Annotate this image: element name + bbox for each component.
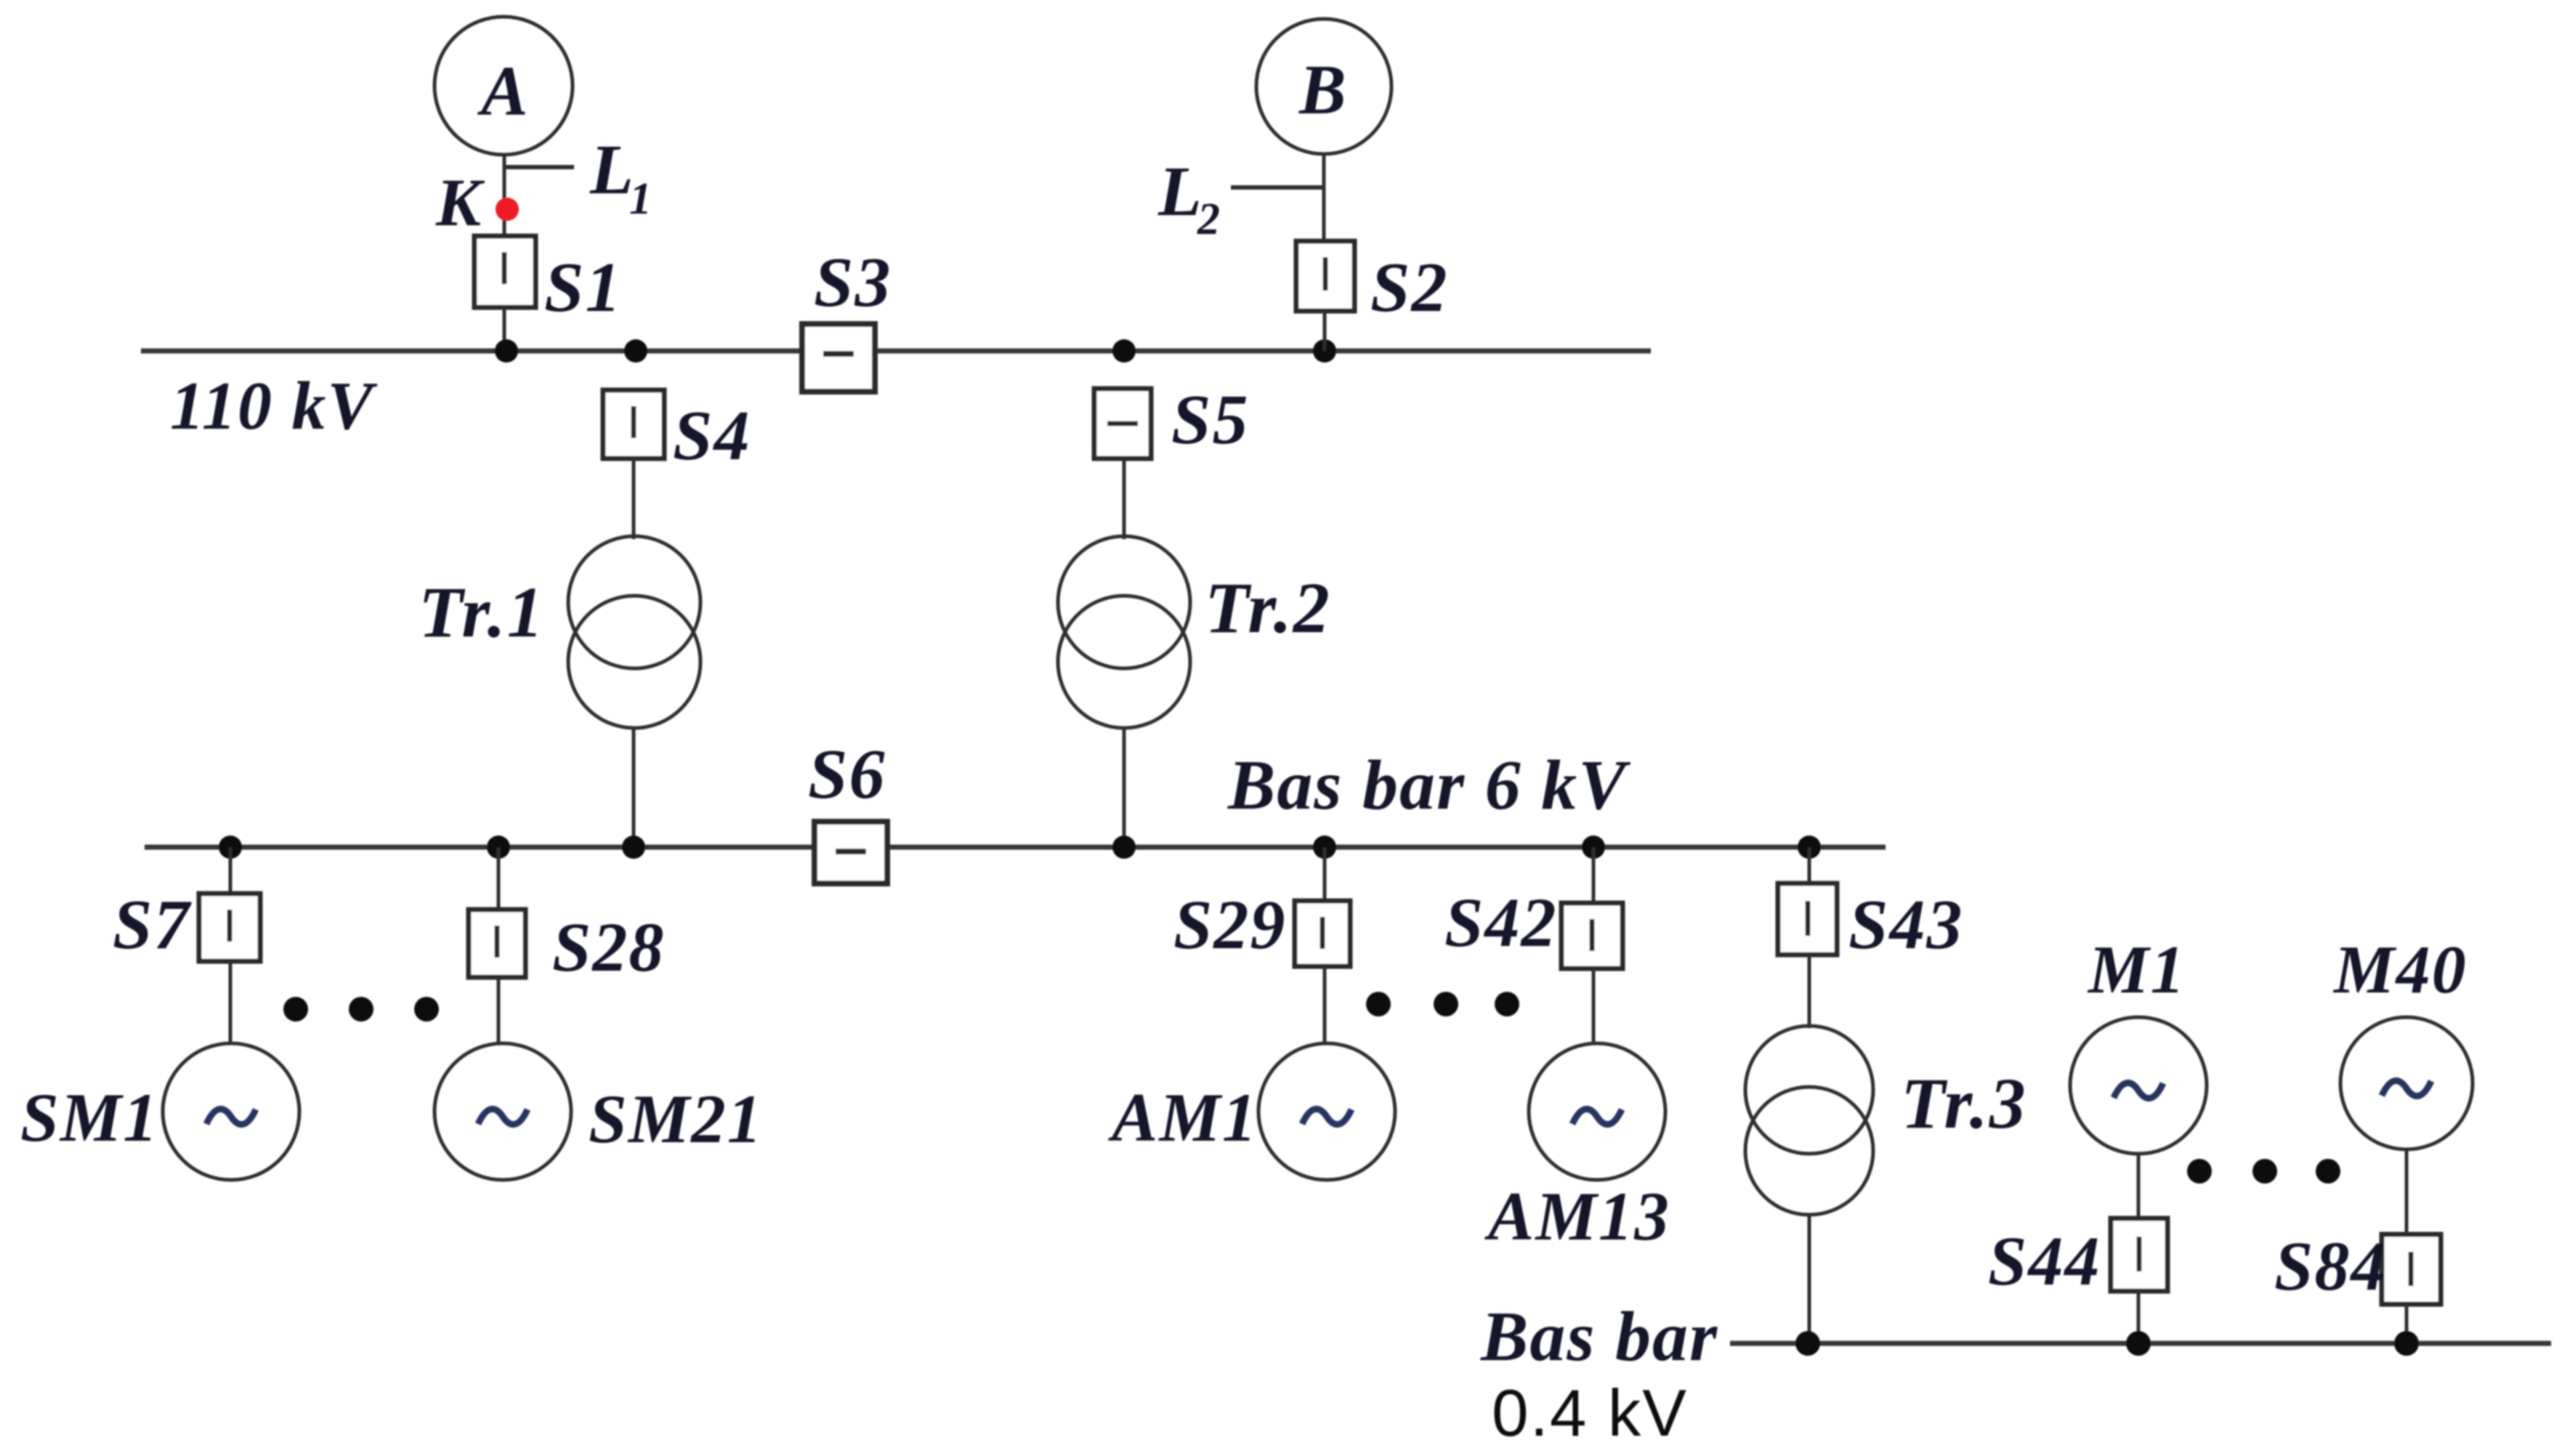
motor AM1 xyxy=(1258,1043,1395,1180)
svg-text:Tr.2: Tr.2 xyxy=(1205,567,1331,648)
wire Tr.2 to bus 6 kV xyxy=(1123,727,1126,847)
wire S1 to bus 110 kV xyxy=(503,307,506,351)
node S84 junction xyxy=(2394,1331,2419,1356)
breaker S43 xyxy=(1778,883,1837,955)
generator A xyxy=(435,17,573,155)
node S43 junction xyxy=(1798,836,1821,859)
busbar 110 kV xyxy=(141,349,1651,354)
node Tr.3 0.4kV junction xyxy=(1795,1331,1820,1356)
wire bus to S7 xyxy=(229,847,233,895)
motor M40 xyxy=(2340,1017,2473,1149)
svg-text:S28: S28 xyxy=(552,908,665,986)
node S7 junction xyxy=(219,836,242,859)
svg-text:S4: S4 xyxy=(673,397,751,475)
svg-text:K: K xyxy=(435,166,485,240)
breaker S84 xyxy=(2382,1234,2441,1304)
wire S43 to Tr.3 xyxy=(1808,955,1811,1028)
svg-text:M1: M1 xyxy=(2087,932,2186,1008)
transformer Tr.1 xyxy=(568,536,700,728)
disconnector S5 xyxy=(1094,389,1151,458)
node Tr.2 junction xyxy=(1112,836,1136,859)
svg-text:Bas bar 6 kV: Bas bar 6 kV xyxy=(1227,746,1631,825)
svg-text:S43: S43 xyxy=(1848,886,1964,964)
fault point K xyxy=(496,198,519,221)
node S4 junction xyxy=(624,339,647,363)
svg-text:S5: S5 xyxy=(1171,381,1250,459)
svg-text:S7: S7 xyxy=(113,886,193,964)
svg-text:Bas bar: Bas bar xyxy=(1480,1298,1718,1376)
svg-text:110 kV: 110 kV xyxy=(170,368,378,444)
svg-text:S6: S6 xyxy=(808,735,886,814)
breaker S1 xyxy=(474,236,536,307)
motor SM21 xyxy=(435,1043,571,1180)
svg-text:2: 2 xyxy=(1197,195,1221,244)
node S44 junction xyxy=(2126,1331,2151,1356)
node S29 junction xyxy=(1313,836,1336,859)
svg-text:M40: M40 xyxy=(2332,932,2468,1008)
svg-text:A: A xyxy=(477,52,530,130)
motor SM1 xyxy=(163,1043,299,1180)
wire Tr.1 to bus 6 kV xyxy=(632,727,636,847)
breaker S28 xyxy=(469,910,525,977)
breaker S2 xyxy=(1296,241,1354,311)
svg-text:S2: S2 xyxy=(1370,248,1449,327)
svg-text:L: L xyxy=(589,131,635,209)
svg-text:B: B xyxy=(1298,51,1348,129)
line L2 tap xyxy=(1231,185,1325,190)
svg-text:S84: S84 xyxy=(2274,1227,2387,1305)
line L1 tap xyxy=(505,165,574,169)
wire S2 to bus 110 kV xyxy=(1323,311,1327,351)
wire bus to S28 xyxy=(497,847,501,911)
svg-text:S42: S42 xyxy=(1444,883,1557,961)
wire S44 to bus 0.4 kV xyxy=(2137,1291,2141,1343)
svg-text:Tr.1: Tr.1 xyxy=(419,572,545,652)
wire bus to S43 xyxy=(1808,847,1811,885)
wire M40 to S84 xyxy=(2405,1149,2409,1236)
svg-text:S44: S44 xyxy=(1988,1222,2101,1300)
breaker S42 xyxy=(1561,903,1623,968)
busbar 6 kV xyxy=(145,845,1886,850)
svg-text:SM1: SM1 xyxy=(20,1079,159,1156)
label L2 xyxy=(1157,153,1221,244)
svg-text:AM13: AM13 xyxy=(1484,1178,1670,1255)
wire S29 to AM1 xyxy=(1323,966,1327,1045)
label L1 xyxy=(589,131,653,224)
motor M1 xyxy=(2070,1017,2207,1154)
wire S42 to AM13 xyxy=(1592,968,1596,1045)
svg-text:0.4 kV: 0.4 kV xyxy=(1492,1377,1688,1450)
dots between AM feeders xyxy=(1366,992,1519,1016)
svg-text:S29: S29 xyxy=(1173,886,1286,963)
svg-text:SM21: SM21 xyxy=(589,1080,763,1157)
generator B xyxy=(1256,19,1391,154)
node S5 junction xyxy=(1112,339,1136,363)
wire S28 to SM21 xyxy=(497,977,501,1045)
wire S7 to SM1 xyxy=(229,961,233,1045)
breaker S29 xyxy=(1295,901,1350,966)
breaker S44 xyxy=(2111,1218,2167,1291)
dots between M feeders xyxy=(2187,1159,2340,1184)
transformer Tr.2 xyxy=(1058,536,1190,728)
node S42 junction xyxy=(1582,836,1605,859)
busbar 0.4 kV xyxy=(1730,1341,2551,1346)
wire bus to S42 xyxy=(1592,847,1596,905)
dots between SM feeders xyxy=(283,997,439,1022)
wire Tr.3 to bus 0.4 kV xyxy=(1808,1215,1811,1343)
node S1 junction xyxy=(495,339,518,363)
motor AM13 xyxy=(1529,1043,1665,1180)
transformer Tr.3 xyxy=(1745,1026,1873,1215)
svg-text:S1: S1 xyxy=(544,248,623,327)
svg-text:S3: S3 xyxy=(814,243,892,322)
wire S4 to Tr.1 xyxy=(632,458,636,539)
node Tr.1 junction xyxy=(622,836,645,859)
breaker S7 xyxy=(199,894,260,961)
svg-text:L: L xyxy=(1157,153,1203,231)
wire bus to S29 xyxy=(1323,847,1327,902)
svg-text:AM1: AM1 xyxy=(1108,1079,1258,1156)
node S28 junction xyxy=(487,836,510,859)
svg-text:Tr.3: Tr.3 xyxy=(1901,1063,2027,1144)
wire S5 to Tr.2 xyxy=(1123,458,1126,539)
wire A to S1 xyxy=(503,155,506,240)
wire S84 to bus 0.4 kV xyxy=(2405,1304,2409,1343)
disconnector S3 xyxy=(802,324,875,392)
wire B to S2 xyxy=(1322,154,1326,244)
node S2 junction xyxy=(1313,339,1336,363)
bus coupler S6 xyxy=(815,822,887,883)
svg-text:1: 1 xyxy=(629,174,653,224)
wire M1 to S44 xyxy=(2137,1154,2141,1221)
breaker S4 xyxy=(603,390,664,458)
